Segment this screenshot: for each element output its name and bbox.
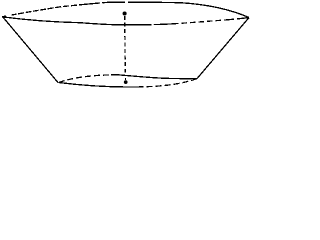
right slant side line bbox=[197, 18, 249, 79]
bottom ellipse upper arc (dashed left, solid right) bbox=[59, 75, 197, 83]
bottom ellipse lower arc (solid left, dashed right) bbox=[59, 79, 197, 88]
dashed central axis bbox=[124, 16, 127, 73]
bottom center dot bbox=[124, 80, 128, 84]
axis dash between bottom arc and bottom dot bbox=[125, 78, 127, 80]
top center dot bbox=[123, 11, 127, 15]
top ellipse upper arc (dashed left, solid right) bbox=[2, 2, 249, 17]
top ellipse lower arc (solid left, dashed right) bbox=[2, 17, 249, 25]
left slant side line bbox=[3, 17, 58, 83]
frustum (truncated cone) wireframe diagram bbox=[0, 0, 254, 96]
